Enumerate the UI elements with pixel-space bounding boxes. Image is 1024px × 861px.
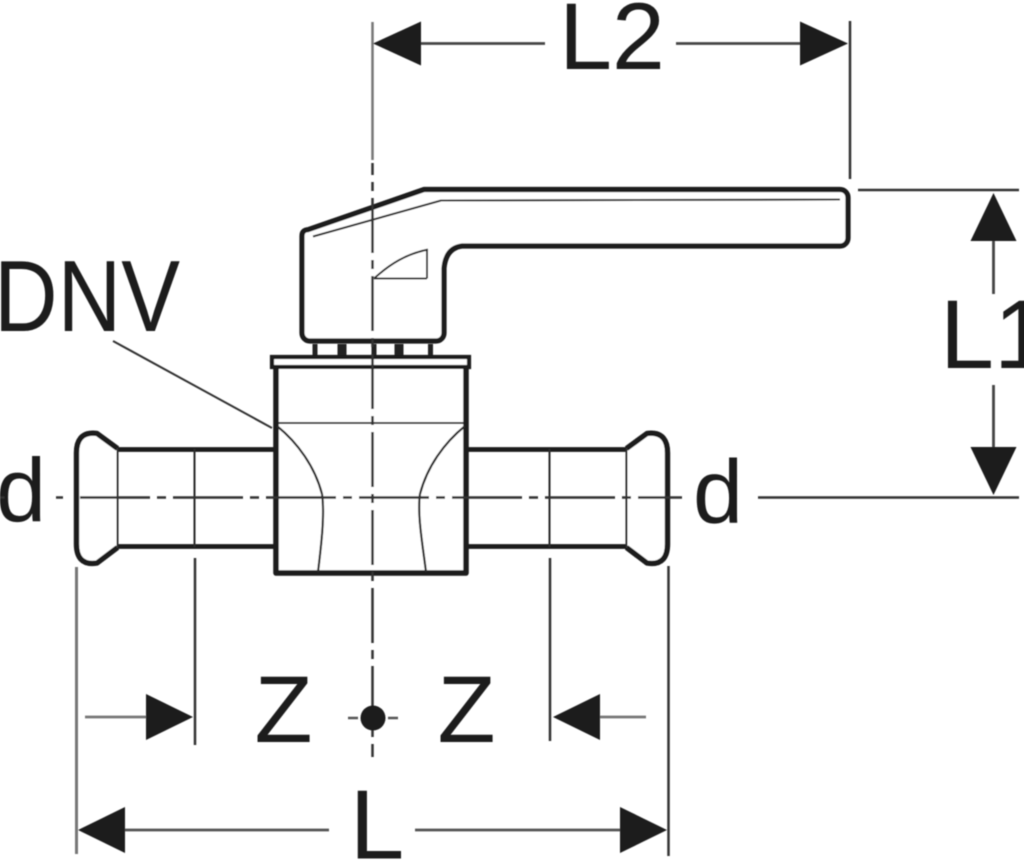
- svg-text:L2: L2: [559, 0, 665, 90]
- L dim line left segment: [125, 829, 329, 832]
- Z left arrow: [146, 694, 193, 740]
- Z right arrow: [553, 694, 600, 740]
- svg-text:d: d: [693, 443, 743, 543]
- DNV leader line: [113, 341, 272, 428]
- right bell junction line: [626, 449, 628, 547]
- L dim line right segment: [415, 829, 622, 832]
- left press socket bell: [77, 433, 118, 563]
- L1 bottom extension line: [758, 496, 1019, 499]
- right pipe bottom edge: [466, 544, 627, 549]
- L1 bottom arrow: [971, 447, 1017, 495]
- L right arrow: [620, 807, 667, 853]
- valve flange plate: [272, 357, 469, 367]
- L2 right extension line: [849, 21, 852, 179]
- center mark side dashes: [348, 717, 358, 720]
- svg-text:Z: Z: [254, 657, 312, 763]
- left press depth mark: [194, 449, 196, 547]
- body inner curve left: [277, 426, 323, 572]
- svg-text:L: L: [350, 770, 405, 861]
- left pipe top edge: [118, 447, 277, 452]
- svg-text:Z: Z: [437, 657, 495, 763]
- L1 top arrow: [971, 193, 1017, 241]
- Z left dim tail: [85, 716, 147, 719]
- valve body: [276, 369, 466, 573]
- left pipe bottom edge: [118, 544, 277, 549]
- left bell junction line: [117, 449, 119, 547]
- Z left outer extension line: [75, 567, 78, 854]
- L2 dim line left segment: [421, 42, 545, 45]
- L2 dim line right segment: [676, 42, 801, 45]
- L2 right arrow: [800, 22, 848, 66]
- svg-text:DNV: DNV: [0, 241, 180, 353]
- vertical centerline: [371, 163, 374, 757]
- handle thumb detail swoosh: [374, 250, 428, 279]
- right press socket bell: [627, 433, 668, 563]
- L1 top extension line: [858, 189, 1019, 192]
- body inner curve right: [419, 426, 465, 572]
- L1 dim line lower segment: [992, 385, 995, 448]
- Z right dim tail: [600, 716, 646, 719]
- right pipe top edge: [466, 447, 627, 452]
- L1 dim line upper segment: [992, 240, 995, 294]
- svg-text:L1: L1: [940, 280, 1024, 389]
- horizontal centerline: [0, 496, 682, 499]
- handle inner highlight line: [313, 200, 840, 237]
- Z left extension line: [194, 558, 197, 745]
- L left arrow: [78, 807, 125, 853]
- svg-text:d: d: [0, 442, 46, 542]
- L2 left extension line: [371, 22, 374, 160]
- Z right extension line: [549, 558, 552, 741]
- stem knurl serrations: [313, 344, 434, 355]
- handle lever outline: [302, 190, 848, 342]
- body joint line: [278, 422, 464, 424]
- L right extension line: [667, 566, 670, 856]
- center mark dot: [361, 706, 386, 731]
- L2 left arrow: [373, 22, 421, 66]
- right press depth mark: [549, 449, 551, 547]
